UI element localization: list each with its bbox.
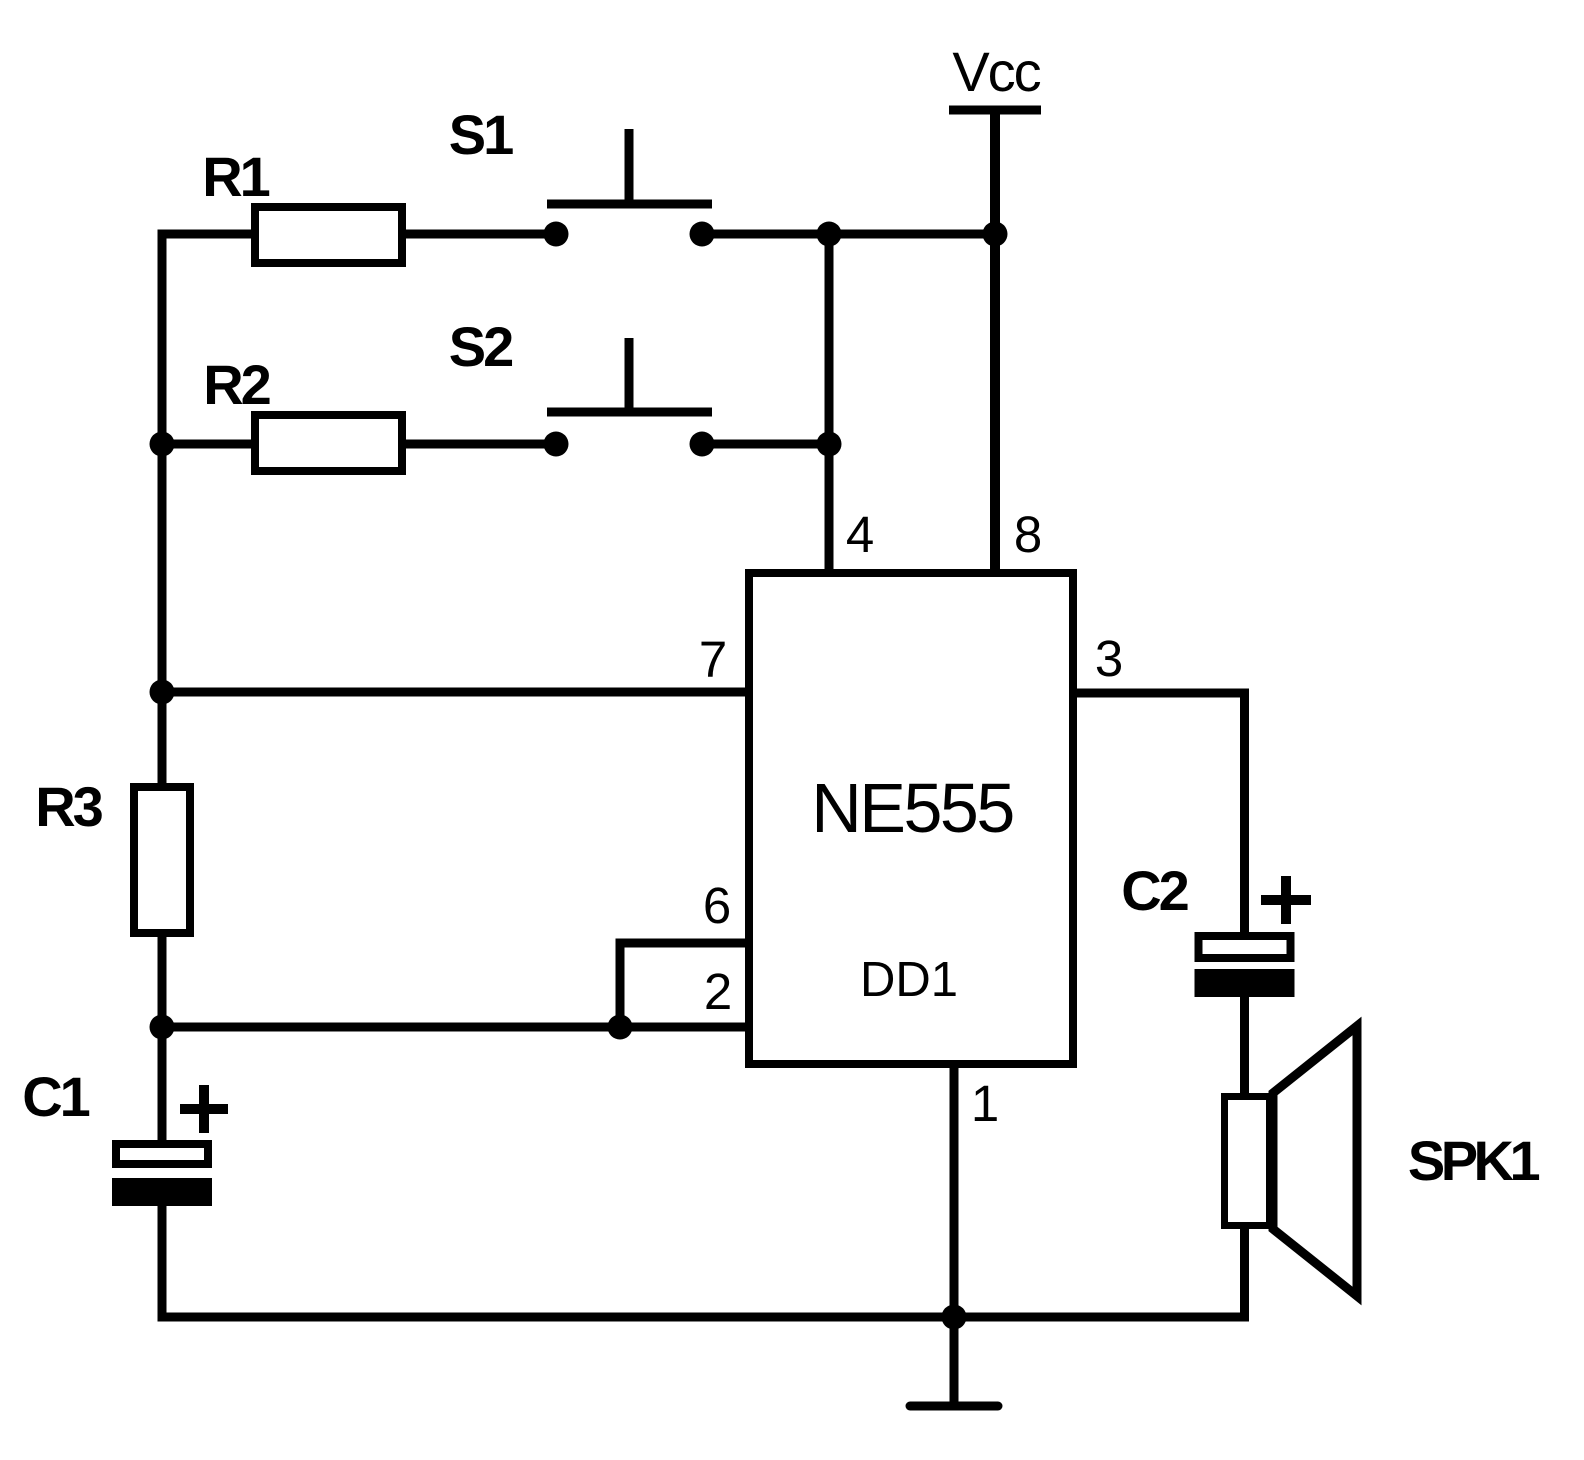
svg-text:R1: R1 [202, 145, 269, 208]
svg-text:R2: R2 [203, 353, 269, 416]
svg-text:S2: S2 [449, 315, 512, 378]
svg-text:Vcc: Vcc [952, 40, 1040, 103]
svg-text:S1: S1 [449, 103, 513, 166]
svg-text:6: 6 [703, 877, 731, 934]
svg-text:R3: R3 [35, 775, 102, 838]
svg-text:1: 1 [971, 1075, 999, 1132]
svg-text:3: 3 [1095, 630, 1123, 687]
svg-text:DD1: DD1 [860, 953, 958, 1007]
svg-text:C1: C1 [22, 1065, 89, 1128]
svg-text:8: 8 [1014, 506, 1042, 563]
svg-text:4: 4 [846, 506, 874, 563]
svg-text:C2: C2 [1121, 859, 1187, 922]
svg-text:2: 2 [704, 963, 732, 1020]
svg-text:SPK1: SPK1 [1408, 1129, 1540, 1192]
svg-text:7: 7 [699, 631, 727, 688]
svg-text:NE555: NE555 [811, 769, 1013, 847]
